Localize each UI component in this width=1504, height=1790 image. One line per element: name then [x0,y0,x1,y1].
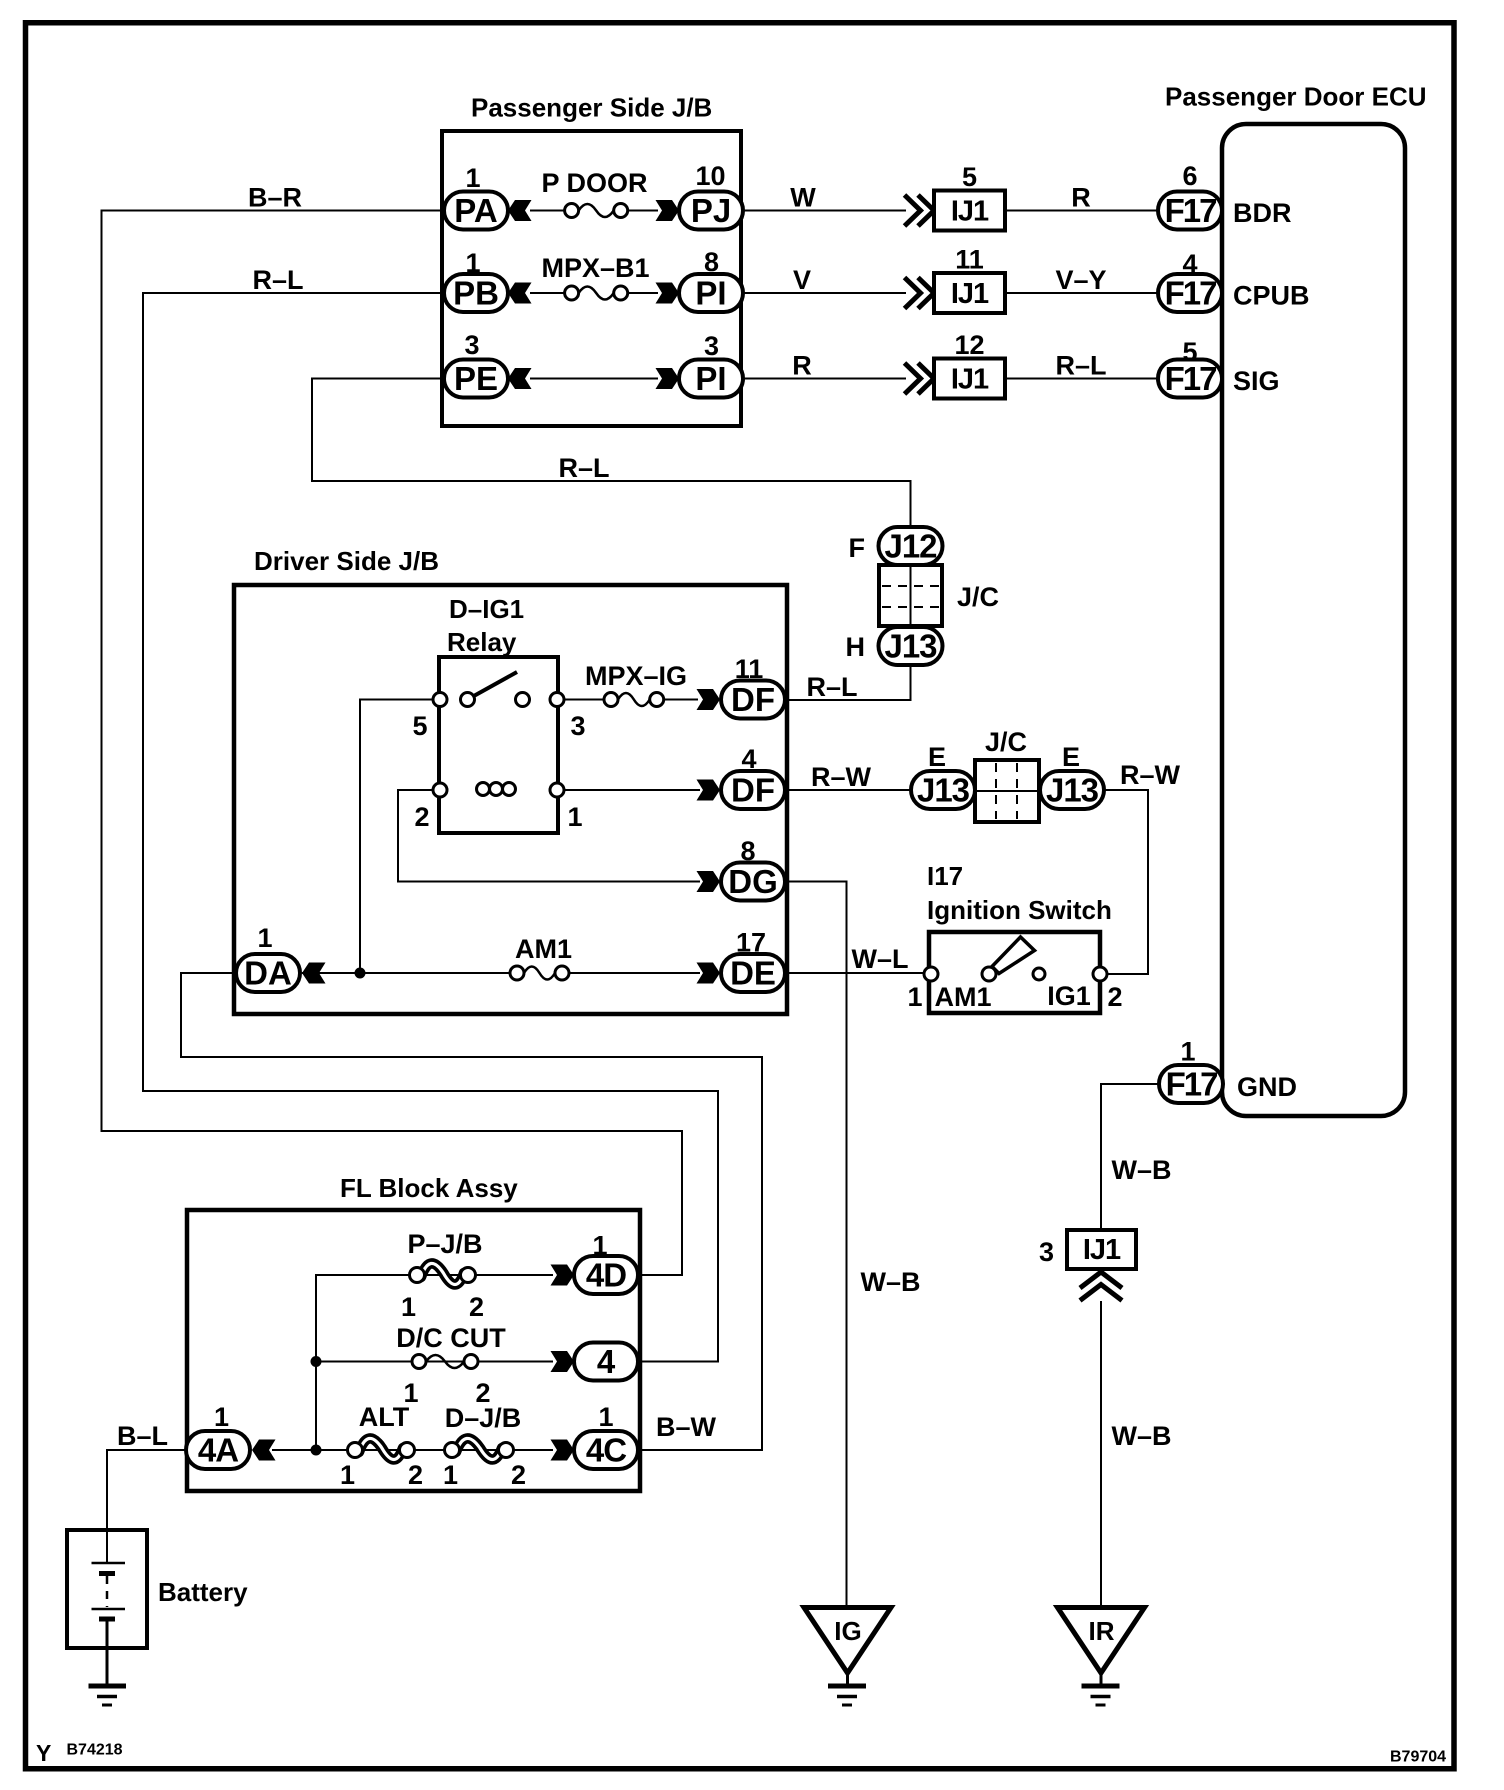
svg-text:E: E [1062,742,1080,772]
connector DE pin 17 [721,928,785,993]
svg-text:3: 3 [704,331,719,361]
svg-text:2: 2 [469,1292,484,1322]
svg-text:Y: Y [36,1740,51,1766]
connector DA pin 1 [236,923,300,992]
svg-text:1: 1 [443,1460,458,1490]
svg-text:F: F [849,533,866,563]
connector 4A pin 1 [186,1402,250,1469]
svg-text:1: 1 [907,982,922,1012]
svg-text:PJ: PJ [691,192,731,229]
splice connector IJ1 pin 5 [934,162,1005,231]
wire W net: PJ to IJ1 [743,210,906,212]
connector PE pin 3 [444,330,508,398]
svg-text:W: W [790,183,816,213]
svg-text:11: 11 [955,245,984,275]
svg-text:6: 6 [1182,161,1197,191]
arrow into PE [508,368,532,389]
svg-text:Battery: Battery [158,1577,248,1607]
svg-text:IR: IR [1089,1616,1115,1646]
connector 4C pin 1 [574,1402,638,1469]
wire R-L net: PB to 4 [143,293,718,1362]
connector PA pin 1 [444,163,508,230]
connector PI pin 3 [679,331,743,398]
junction FL node at ALT [311,1445,322,1456]
svg-text:ALT: ALT [359,1402,410,1432]
ignition switch contacts [924,967,1107,981]
svg-text:D/C CUT: D/C CUT [396,1323,506,1353]
wire R-L net: IJ1 to F17 SIG [1005,378,1158,380]
svg-text:PI: PI [695,275,726,312]
svg-text:4C: 4C [586,1432,626,1469]
junction connector J/C vertical [879,565,942,626]
svg-text:3: 3 [570,711,585,741]
ECU Passenger Door ECU [1165,82,1427,1117]
splice chevrons IJ1 row 2 [905,278,935,309]
svg-text:R–L: R–L [1055,351,1106,381]
connector F17 pin 4 CPUB [1158,249,1222,312]
svg-text:PE: PE [454,360,498,397]
connector PB pin 1 [444,248,508,312]
connector 4 [574,1343,638,1381]
connector J13 pin E right [1040,771,1104,809]
svg-text:W–L: W–L [852,944,909,974]
svg-text:B–W: B–W [656,1412,717,1442]
splice connector IJ1 pin 3 [1039,1230,1136,1269]
svg-text:R–W: R–W [811,762,872,792]
svg-text:P DOOR: P DOOR [541,168,647,198]
fusible link D-J/B [445,1438,514,1459]
svg-text:4: 4 [1182,249,1197,279]
splice chevrons IJ1 row 1 [905,195,935,226]
svg-text:2: 2 [1107,982,1122,1012]
svg-text:J13: J13 [884,628,937,665]
fusible link P-J/B [410,1263,476,1284]
svg-text:IG: IG [834,1616,861,1646]
svg-text:1: 1 [214,1402,229,1432]
fuse block FL Block Assy [187,1173,640,1491]
svg-text:F17: F17 [1165,275,1217,312]
svg-text:R: R [792,351,812,381]
svg-text:5: 5 [412,711,427,741]
wire W-B net: F17 GND to IJ1 3 [1101,1084,1160,1232]
svg-text:W–B: W–B [1112,1155,1172,1185]
relay D-IG1 [439,594,558,833]
arrow into DF 4 [697,780,721,801]
svg-text:MPX–B1: MPX–B1 [541,253,649,283]
wire 4D to P-J/B link [412,1274,553,1276]
svg-text:5: 5 [962,162,977,192]
svg-text:CPUB: CPUB [1233,281,1310,311]
fuse P DOOR [565,204,628,218]
svg-text:R–L: R–L [558,453,609,483]
arrow into PJ [656,200,680,221]
svg-text:D–IG1: D–IG1 [449,594,524,624]
wire B-W net: DA to 4C [181,973,762,1450]
arrow into PI 8 [656,283,680,304]
wire B-L net: 4A to battery [107,1450,188,1532]
svg-text:12: 12 [954,330,984,360]
arrow into PI 3 [656,368,680,389]
fusible link ALT [348,1438,415,1459]
svg-text:IJ1: IJ1 [951,196,989,228]
wire W-B net: DG to IG ground [786,882,847,1608]
ignition switch I17 [927,861,1112,1013]
connector 4D pin 1 [574,1231,638,1294]
svg-text:DG: DG [728,863,778,900]
svg-text:J13: J13 [1046,772,1099,809]
svg-text:AM1: AM1 [934,982,991,1012]
svg-text:DF: DF [731,772,775,809]
splice chevrons under IJ1 pin 3 [1080,1272,1122,1301]
arrow into PA [508,200,532,221]
svg-text:AM1: AM1 [515,934,572,964]
svg-text:B79704: B79704 [1390,1749,1446,1766]
junction relay 5 / AM1 node [355,968,366,979]
svg-text:GND: GND [1237,1072,1297,1102]
svg-text:2: 2 [414,802,429,832]
svg-text:J/C: J/C [957,582,999,612]
connector DG pin 8 [721,836,785,901]
svg-text:R–L: R–L [806,672,857,702]
svg-text:BDR: BDR [1233,198,1292,228]
svg-text:Passenger Side J/B: Passenger Side J/B [471,93,712,123]
svg-text:F17: F17 [1166,1066,1218,1103]
svg-text:F17: F17 [1165,192,1217,229]
wire PE to PI [530,378,658,380]
arrow into 4A [252,1440,276,1461]
wire P DOOR to PJ [628,210,658,212]
svg-text:Relay: Relay [447,627,517,657]
svg-text:Driver Side J/B: Driver Side J/B [254,546,439,576]
wire D/C CUT row [316,1361,553,1363]
svg-text:8: 8 [740,836,755,866]
wire B-R net: PA to 4D [102,211,683,1276]
svg-text:SIG: SIG [1233,366,1280,396]
svg-text:H: H [846,632,866,662]
svg-text:4: 4 [597,1343,616,1380]
svg-text:1: 1 [592,1231,607,1261]
arrow into 4D [551,1265,575,1286]
svg-text:W–B: W–B [1112,1421,1172,1451]
wire relay pin 3 to MPX-IG fuse [557,699,612,701]
connector PJ pin 10 [679,161,743,230]
connector DF pin 4 [721,744,785,809]
wire V net: PI to IJ1 [743,292,906,294]
junction connector J/C horizontal [975,760,1039,822]
wire R net: PI to IJ1 [743,378,906,380]
arrow into 4C [551,1440,575,1461]
svg-text:P–J/B: P–J/B [407,1229,482,1259]
svg-text:IJ1: IJ1 [951,364,989,396]
arrow into PB [508,283,532,304]
arrow into DG [697,871,721,892]
svg-text:J12: J12 [884,528,937,565]
battery [67,1530,248,1684]
relay switch blade [468,672,518,700]
svg-text:DF: DF [731,681,775,718]
wire MPX-IG fuse to DF 11 [655,699,698,701]
svg-text:I17: I17 [927,861,963,891]
wire relay coil pin 1 to DF 4 [557,789,700,791]
wire P-J/B link to FL junction [316,1275,422,1450]
arrow into 4 [551,1351,575,1372]
wire W-L net: DE to ignition switch AM1 [786,972,928,974]
svg-text:1: 1 [257,923,272,953]
svg-text:8: 8 [704,247,719,277]
fuse D/C CUT [412,1355,478,1369]
svg-text:Ignition Switch: Ignition Switch [927,895,1112,925]
svg-text:MPX–IG: MPX–IG [585,661,687,691]
svg-text:PA: PA [454,192,497,229]
fuse MPX-IG [604,693,664,707]
wire relay coil pin 2 to DG [398,790,700,882]
svg-text:17: 17 [736,928,766,958]
svg-text:IJ1: IJ1 [951,278,989,310]
arrow into DE [697,963,721,984]
wire AM1 fuse to DE [567,972,700,974]
svg-text:R: R [1071,183,1091,213]
svg-text:4D: 4D [586,1257,626,1294]
wire ALT D-J/B row [272,1449,553,1451]
svg-text:4A: 4A [198,1432,238,1469]
svg-text:J13: J13 [917,772,970,809]
arrow into DF 11 [697,689,721,710]
svg-text:IJ1: IJ1 [1083,1234,1121,1266]
connector F17 pin 1 GND [1159,1037,1223,1104]
wire PA to P DOOR [530,210,565,212]
svg-text:1: 1 [598,1402,613,1432]
svg-text:1: 1 [465,163,480,193]
svg-text:B–L: B–L [117,1421,168,1451]
fuse AM1 [510,966,569,980]
wire R-L net: PE to J12 [312,379,911,531]
connector PI pin 8 [679,247,743,312]
splice chevrons IJ1 row 3 [905,363,935,394]
svg-text:B74218: B74218 [67,1742,123,1759]
svg-text:2: 2 [408,1460,423,1490]
wire R-W net: J13 E to ignition switch IG1 [1104,790,1148,974]
relay contacts [433,693,564,707]
arrow into DA [302,963,326,984]
svg-text:J/C: J/C [985,727,1027,757]
relay coil [477,783,516,796]
wire R-W net: DF 4 to J13 E [786,789,913,791]
relay coil contacts [433,783,564,797]
svg-text:E: E [928,742,946,772]
svg-text:DA: DA [244,955,292,992]
svg-text:FL Block Assy: FL Block Assy [340,1173,518,1203]
svg-text:PI: PI [695,360,726,397]
svg-text:Passenger Door ECU: Passenger Door ECU [1165,82,1427,112]
svg-text:D–J/B: D–J/B [445,1403,522,1433]
svg-text:V: V [793,265,811,295]
svg-text:PB: PB [453,275,499,312]
splice connector IJ1 pin 11 [934,245,1005,314]
svg-text:1: 1 [465,248,480,278]
splice connector IJ1 pin 12 [934,330,1005,399]
connector J12 pin F [879,527,943,565]
junction FL node at D/C CUT [311,1356,322,1367]
svg-text:1: 1 [1180,1037,1195,1067]
connector F17 pin 6 BDR [1158,161,1222,230]
wire DA to AM1 fuse [302,972,512,974]
connector J13 pin E left [911,771,975,809]
ignition switch lever [992,937,1035,974]
svg-text:IG1: IG1 [1047,981,1091,1011]
svg-text:DE: DE [730,955,776,992]
connector J13 pin H [879,627,943,665]
svg-text:3: 3 [1039,1237,1054,1267]
connector DF pin 11 [721,654,785,719]
svg-text:1: 1 [567,802,582,832]
svg-text:2: 2 [511,1460,526,1490]
svg-text:B–R: B–R [248,183,302,213]
junction block Passenger Side J/B [442,93,741,427]
svg-text:5: 5 [1182,337,1197,367]
ground point IR [1058,1608,1145,1706]
svg-text:W–B: W–B [861,1267,921,1297]
connector F17 pin 5 SIG [1158,337,1222,398]
svg-text:1: 1 [401,1292,416,1322]
svg-text:V–Y: V–Y [1055,265,1106,295]
wire W-B net: IJ1 3 to IR ground [1100,1301,1102,1607]
wire R-L net: J13 to DF 11 [786,662,911,700]
junction block Driver Side J/B [234,546,787,1014]
svg-text:4: 4 [741,744,756,774]
svg-text:3: 3 [464,330,479,360]
svg-text:11: 11 [735,654,764,684]
svg-text:R–L: R–L [252,265,303,295]
fuse MPX-B1 [565,286,628,300]
wire relay pin 5 to DA junction [360,700,440,974]
ground battery [89,1686,127,1705]
svg-text:1: 1 [340,1460,355,1490]
wire V-Y net: IJ1 to F17 CPUB [1005,292,1158,294]
wire R net: IJ1 to F17 BDR [1005,210,1158,212]
ground point IG [804,1608,891,1706]
svg-text:R–W: R–W [1120,760,1181,790]
wire PB to MPX-B1 [530,292,565,294]
wire MPX-B1 to PI [628,292,658,294]
svg-text:10: 10 [695,161,725,191]
